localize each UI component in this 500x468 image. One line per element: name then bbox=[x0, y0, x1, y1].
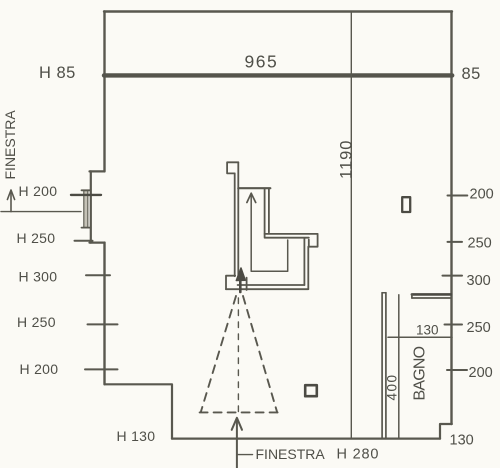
svg-text:130: 130 bbox=[450, 433, 474, 449]
left leader arrow shaft bbox=[10, 193, 12, 212]
tick right 250b bbox=[445, 324, 463, 326]
stair arrow head bbox=[247, 193, 256, 202]
svg-text:H 130: H 130 bbox=[117, 428, 156, 444]
left leader arrow head bbox=[7, 190, 14, 200]
stair bottom-left cap bbox=[226, 276, 235, 290]
svg-text:300: 300 bbox=[467, 273, 491, 289]
dashed cone center line bbox=[237, 298, 239, 414]
dashed cone right edge bbox=[243, 296, 277, 412]
svg-text:FINESTRA: FINESTRA bbox=[256, 446, 326, 462]
wall step left at 242 bbox=[90, 242, 105, 244]
stair arm lower line bbox=[265, 237, 309, 239]
svg-text:H 85: H 85 bbox=[39, 64, 76, 82]
stair bottom upper line bbox=[238, 284, 305, 286]
wall left upper bbox=[103, 12, 105, 172]
finestra label tick bbox=[238, 454, 253, 456]
stair top arm line bbox=[238, 187, 270, 189]
tick left H200 bbox=[71, 194, 101, 196]
window pane band bbox=[84, 191, 88, 228]
window top cap bbox=[82, 189, 91, 191]
stair top-left cap bbox=[227, 162, 238, 173]
svg-text:130: 130 bbox=[416, 323, 439, 338]
column rect right bbox=[402, 197, 410, 212]
svg-text:H 200: H 200 bbox=[20, 361, 59, 377]
stair arm right cap bbox=[309, 234, 318, 247]
stair right drop inner bbox=[303, 239, 305, 285]
left window leader line bbox=[1, 211, 81, 213]
bagno stub cap bbox=[411, 294, 413, 298]
dashed cone left edge bbox=[201, 296, 236, 411]
beam line H85 thick bbox=[104, 73, 452, 77]
dark arrow head bbox=[236, 268, 245, 281]
tick left H300 bbox=[86, 274, 110, 276]
svg-text:1190: 1190 bbox=[338, 140, 356, 179]
tick left H250b bbox=[88, 323, 118, 325]
wall right bbox=[450, 12, 452, 425]
svg-text:250: 250 bbox=[467, 320, 491, 336]
svg-text:H 250: H 250 bbox=[17, 314, 56, 330]
wall step bottom-left bbox=[105, 384, 173, 438]
svg-text:H 300: H 300 bbox=[19, 269, 58, 285]
wall left through window bbox=[90, 171, 92, 242]
stair bottom lower line bbox=[226, 288, 308, 290]
svg-text:250: 250 bbox=[468, 235, 492, 251]
svg-text:H 280: H 280 bbox=[337, 447, 380, 463]
line 1190 vertical bbox=[350, 12, 352, 438]
svg-text:965: 965 bbox=[245, 52, 279, 72]
tick right 200 bbox=[448, 195, 468, 197]
wall left lower bbox=[103, 243, 105, 385]
wall step bottom-right bbox=[440, 424, 452, 439]
stair direction arrow path bbox=[251, 196, 288, 272]
bagno wall double line b bbox=[385, 293, 387, 438]
svg-text:BAGNO: BAGNO bbox=[412, 346, 429, 400]
tick left H250 bbox=[75, 240, 93, 242]
tick right 300 bbox=[443, 275, 463, 277]
bagno 130 line bbox=[388, 336, 452, 338]
svg-text:400: 400 bbox=[385, 373, 400, 400]
stair left wall outer line bbox=[234, 173, 236, 276]
stair bottom cap right edge bbox=[246, 278, 248, 290]
bagno inner line bbox=[398, 295, 400, 438]
window bottom cap bbox=[82, 227, 91, 229]
svg-text:200: 200 bbox=[469, 365, 493, 381]
dark arrow at stair entry bbox=[239, 272, 242, 292]
wall bottom bbox=[172, 438, 440, 440]
bagno wall top cap bbox=[382, 292, 386, 294]
stair mid vertical inner bbox=[268, 189, 270, 233]
finestra bottom arrow head bbox=[232, 418, 242, 430]
bagno stub wall upper bbox=[412, 293, 451, 296]
svg-text:H 250: H 250 bbox=[17, 230, 56, 246]
dashed cone base bbox=[200, 411, 278, 413]
stair right drop outer bbox=[307, 247, 309, 289]
stair left wall inner line bbox=[237, 162, 239, 276]
svg-text:200: 200 bbox=[470, 187, 494, 203]
finestra bottom arrow shaft bbox=[236, 419, 238, 468]
wall step left at 171 bbox=[90, 170, 105, 172]
wall top bbox=[104, 10, 452, 12]
stair mid vertical outer bbox=[264, 189, 266, 237]
svg-text:85: 85 bbox=[462, 65, 481, 83]
svg-text:FINESTRA: FINESTRA bbox=[2, 110, 18, 180]
bagno wall double line a bbox=[381, 293, 383, 438]
column rect bottom bbox=[305, 385, 317, 396]
stair arm upper line bbox=[265, 233, 318, 235]
svg-text:H 200: H 200 bbox=[19, 183, 58, 199]
bagno stub wall lower bbox=[412, 297, 451, 299]
tick left H200b bbox=[85, 368, 118, 370]
tick right 250 bbox=[448, 241, 463, 243]
tick right 200b bbox=[447, 369, 467, 371]
